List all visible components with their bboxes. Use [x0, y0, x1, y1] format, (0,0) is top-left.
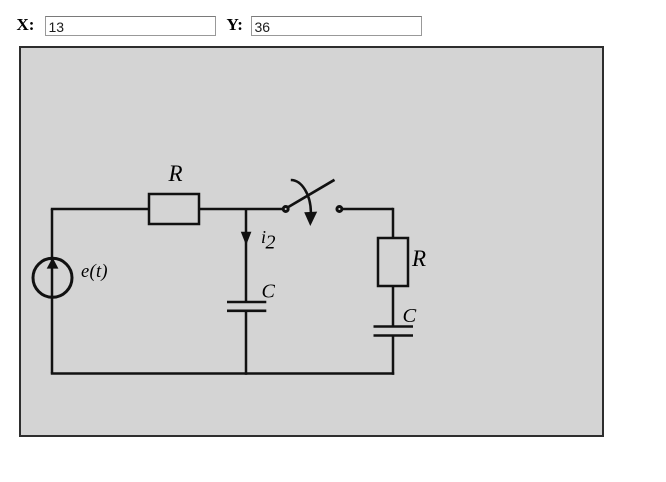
wire R1 to switch left contact	[199, 208, 283, 211]
svg-text:2: 2	[266, 232, 276, 254]
switch S1 right contact	[337, 207, 342, 212]
resistor R2 (right branch, vertical)	[378, 238, 408, 286]
svg-text:C: C	[262, 281, 276, 303]
wire top-left horizontal (source to R1)	[51, 208, 149, 211]
capacitor C2 (right branch) plates	[374, 327, 414, 336]
wire R2 to capacitor C2	[392, 286, 395, 326]
wire middle branch vertical upper	[245, 209, 248, 302]
current arrow i2	[241, 232, 252, 245]
wire C2 to bottom	[392, 336, 395, 375]
switch S1 closing arc	[291, 180, 311, 213]
input Y	[251, 16, 422, 36]
switch S1 arc arrowhead	[304, 212, 317, 226]
wire switch right contact to right branch corner	[343, 208, 394, 211]
svg-text:R: R	[168, 161, 183, 186]
label X	[17, 15, 35, 35]
switch S1 blade	[288, 180, 335, 208]
svg-text:e(t): e(t)	[81, 262, 108, 282]
input X	[45, 16, 216, 36]
source U1 arrow	[47, 258, 59, 269]
switch S1 left contact	[283, 207, 288, 212]
wire left vertical (through source)	[51, 209, 54, 374]
wire bottom horizontal	[51, 372, 394, 375]
resistor R1 (top, horizontal)	[149, 194, 199, 224]
canvas panel	[19, 46, 604, 437]
wire right branch vertical upper (to resistor R2)	[392, 208, 395, 238]
source U1 e(t) circle	[33, 258, 72, 297]
wire middle branch vertical lower	[245, 311, 248, 375]
svg-text:R: R	[411, 246, 426, 271]
label Y	[227, 15, 243, 35]
capacitor C1 (middle branch) plates	[227, 302, 266, 311]
svg-text:C: C	[403, 305, 417, 327]
